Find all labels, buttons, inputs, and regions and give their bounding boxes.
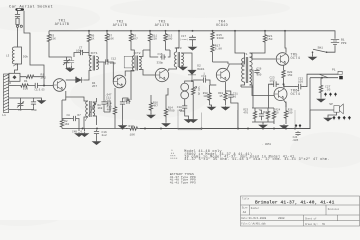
svg-text:V16 2K: V16 2K bbox=[197, 87, 200, 96]
wire IFT3 sec to D1 bbox=[181, 53, 192, 70]
svg-text:330p: 330p bbox=[157, 62, 164, 65]
ground speaker bbox=[324, 117, 332, 122]
svg-text:C4B: C4B bbox=[72, 130, 77, 133]
resistor R15 bbox=[211, 31, 214, 41]
footnote marks tone bbox=[324, 93, 326, 97]
wire C18 to ground bbox=[185, 110, 189, 119]
wire down to combo bbox=[252, 87, 254, 108]
svg-text:OC81D: OC81D bbox=[216, 24, 228, 28]
wire R7 down bbox=[106, 44, 108, 62]
wire output node to C22 bbox=[284, 86, 297, 88]
svg-text:Sheet of: Sheet of bbox=[305, 218, 317, 221]
ground aerial tuned circuit bbox=[37, 99, 45, 104]
wire C11 link bbox=[104, 106, 110, 112]
svg-text:150: 150 bbox=[267, 38, 273, 41]
svg-text:4K7: 4K7 bbox=[133, 38, 138, 41]
wire to gnd bbox=[210, 105, 212, 107]
svg-text:4K7: 4K7 bbox=[107, 109, 112, 112]
wire to L3 bbox=[17, 27, 19, 45]
wire C16 down bbox=[96, 135, 98, 140]
svg-text:R1B: R1B bbox=[129, 125, 135, 128]
wire rail to T1 bbox=[235, 31, 245, 58]
wire C2 top bbox=[21, 98, 34, 101]
ground R12 bbox=[147, 114, 155, 119]
ground combo bbox=[259, 124, 267, 129]
capacitor C26 bbox=[254, 69, 259, 74]
junction on bottom rail bbox=[96, 128, 98, 130]
wire trimmer to rod bbox=[8, 76, 9, 78]
wire C4 top bbox=[33, 98, 35, 100]
svg-text:Brimaler 41-37, 41-40, 41-41: Brimaler 41-37, 41-40, 41-41 bbox=[255, 200, 335, 206]
battery B1 bbox=[331, 38, 339, 46]
wire TR6 collector to node bbox=[283, 85, 286, 88]
resistor R2 body bbox=[20, 75, 40, 78]
capacitor C5 coupling bbox=[33, 83, 40, 88]
svg-text:(4700): (4700) bbox=[180, 38, 188, 41]
wire top supply rail bbox=[49, 31, 335, 38]
svg-text:C5,0.05: C5,0.05 bbox=[35, 88, 46, 91]
detector coil L5 bbox=[181, 83, 189, 91]
transformer T1 bbox=[242, 58, 245, 82]
wire T1 centre tap bbox=[250, 70, 254, 76]
detector section box bbox=[178, 110, 202, 130]
junction on bottom rail bbox=[237, 128, 239, 130]
capacitor C3 bbox=[69, 57, 74, 66]
svg-text:C26: C26 bbox=[257, 68, 262, 71]
svg-text:41-37 5"x3" 35 ohm. 41-48 4" d: 41-37 5"x3" 35 ohm. 41-48 4" dia. 37 ohm… bbox=[184, 157, 329, 162]
resistor R7 bias bbox=[105, 31, 108, 44]
svg-text:3300: 3300 bbox=[217, 37, 224, 40]
svg-text:100: 100 bbox=[288, 112, 293, 115]
wire down to base row bbox=[43, 77, 45, 86]
coil former bbox=[16, 18, 19, 24]
title block frame bbox=[241, 196, 360, 226]
transistor TR3 bbox=[155, 68, 168, 81]
wire AGC down bbox=[103, 70, 105, 100]
svg-text:OC74: OC74 bbox=[291, 57, 301, 61]
wire TR2 emitter down bbox=[114, 88, 116, 95]
svg-text:31-Oct-2008: 31-Oct-2008 bbox=[249, 217, 267, 220]
wire C7 left bbox=[74, 53, 78, 58]
wire jack sleeve line bbox=[310, 77, 338, 79]
ground R26 bbox=[280, 124, 288, 129]
junction on supply rail bbox=[284, 30, 286, 32]
svg-text:.005: .005 bbox=[292, 139, 299, 142]
wire rod tap to R1 bbox=[9, 85, 16, 87]
wire D1 to IFT1 bbox=[84, 74, 89, 80]
wire coil bottom down bbox=[184, 99, 186, 105]
wire TR1 collector to D1 bbox=[66, 79, 77, 81]
transistor TR5 bbox=[276, 53, 289, 66]
capacitor C8 bbox=[71, 116, 78, 121]
network bracket bbox=[252, 108, 274, 122]
svg-text:2008: 2008 bbox=[278, 217, 285, 220]
footnote marks speaker bbox=[333, 116, 336, 120]
wire R19 bottom bbox=[225, 102, 227, 105]
trimmer capacitor box bbox=[9, 73, 20, 81]
wire R20 to output node bbox=[283, 80, 285, 87]
resistor R9 bbox=[129, 31, 132, 44]
svg-text:C19: C19 bbox=[201, 75, 206, 78]
junction on supply rail bbox=[149, 30, 151, 32]
resistor R13 bbox=[164, 31, 167, 44]
resistor R21 bbox=[263, 31, 266, 46]
wire T1 primary top bbox=[242, 58, 245, 64]
junction on supply rail bbox=[88, 30, 90, 32]
wire VR1 bottom bbox=[192, 99, 194, 105]
wire IFT3 primary to rail bbox=[177, 31, 180, 52]
ground C13 bbox=[118, 124, 126, 129]
junction output node bbox=[283, 83, 285, 85]
wire TR3 emitter to R14 bbox=[166, 88, 168, 105]
wire R2 to base node bbox=[40, 76, 44, 78]
resistor 50k damping bbox=[18, 47, 22, 64]
terminal circles bbox=[16, 25, 18, 27]
junction on supply rail bbox=[165, 30, 167, 32]
junction on bottom rail bbox=[273, 128, 275, 130]
svg-text:10K: 10K bbox=[109, 38, 114, 41]
ground C17 bbox=[188, 46, 196, 51]
junction on supply rail bbox=[178, 30, 180, 32]
transformer IFT2 bbox=[132, 56, 134, 71]
IFT2 shield box bbox=[124, 56, 134, 68]
wire osc primary bottom bbox=[84, 117, 88, 129]
junction on bottom rail bbox=[160, 128, 162, 130]
resistor R10 bbox=[113, 103, 116, 118]
wire R9 to IFT2 bbox=[131, 44, 134, 56]
svg-text:1K8: 1K8 bbox=[98, 107, 103, 110]
svg-text:6.8K: 6.8K bbox=[215, 48, 222, 51]
capacitor C22 output bbox=[295, 84, 303, 90]
wire switch to ground bbox=[312, 52, 314, 56]
transformer IFT3 bbox=[174, 52, 176, 67]
svg-text:L3: L3 bbox=[6, 55, 10, 58]
ground osc bbox=[80, 132, 88, 137]
wire TR6 emitter to R26 bbox=[284, 100, 286, 107]
svg-text:SW1: SW1 bbox=[318, 47, 324, 50]
wire rod tap tuning bbox=[9, 97, 21, 99]
svg-text:C40: C40 bbox=[32, 109, 37, 112]
svg-text:100: 100 bbox=[270, 79, 275, 82]
wire C15 right bbox=[168, 50, 170, 57]
svg-text:L1: L1 bbox=[2, 113, 6, 117]
svg-text:10: 10 bbox=[276, 112, 280, 115]
wire AGC node bbox=[103, 62, 105, 70]
wire TR4 emitter to R19 bbox=[225, 82, 227, 91]
junction on bottom rail bbox=[144, 128, 146, 130]
wire R21 to base line bbox=[252, 46, 265, 53]
wire C13 node bbox=[123, 98, 129, 101]
wire C19 to TR4 base bbox=[207, 80, 210, 85]
transistor TR6 bbox=[274, 88, 287, 101]
wire C2 bottom bbox=[20, 109, 22, 110]
diode D1 oscillator bbox=[76, 77, 84, 83]
wire socket left lead bbox=[17, 11, 19, 14]
switch lever jack bbox=[320, 74, 329, 77]
coil L3 bbox=[12, 47, 14, 64]
capacitor C7 bbox=[78, 50, 85, 55]
resistor R1 bbox=[16, 84, 33, 87]
resistor R6 bias bbox=[87, 31, 90, 45]
capacitor C15 bbox=[160, 54, 166, 59]
svg-text:470: 470 bbox=[243, 112, 248, 115]
svg-text:P1: P1 bbox=[332, 68, 336, 71]
svg-text:IFT1: IFT1 bbox=[90, 52, 97, 55]
capacitor C13 bbox=[120, 100, 125, 106]
wire bottom rail right segment bbox=[140, 110, 310, 129]
wire bottom rail left segment bbox=[62, 128, 128, 130]
svg-text:2u2: 2u2 bbox=[102, 134, 107, 137]
svg-text:T2: T2 bbox=[90, 106, 94, 109]
svg-text:0.1: 0.1 bbox=[81, 130, 86, 133]
resistor R19 bbox=[224, 91, 227, 102]
ground VR1 bbox=[189, 118, 197, 123]
svg-text:100: 100 bbox=[298, 80, 303, 83]
wire osc feedback top bbox=[66, 97, 88, 101]
svg-text:AF117B: AF117B bbox=[113, 24, 127, 28]
svg-text:A4: A4 bbox=[243, 211, 247, 214]
resistor R11 bbox=[148, 31, 151, 44]
svg-text:100: 100 bbox=[203, 95, 208, 98]
wire R26 top bbox=[285, 102, 287, 108]
wire rod tap lower bbox=[9, 109, 16, 111]
svg-text:Revision: Revision bbox=[328, 208, 340, 211]
svg-text:OA90: OA90 bbox=[74, 77, 77, 83]
wire R12 bottom bbox=[150, 113, 152, 114]
wire R11 down bbox=[143, 44, 150, 50]
ground C8 bbox=[75, 132, 83, 137]
wire T1 sec to TR6 base bbox=[250, 85, 275, 96]
wire C7 right bbox=[85, 52, 89, 54]
capacitor C18 bbox=[182, 104, 187, 110]
wire IFT2 sec top bbox=[139, 50, 143, 57]
diode D1 bbox=[188, 70, 196, 79]
capacitor C12 bbox=[104, 59, 109, 64]
wire socket to coupling bbox=[24, 27, 44, 77]
capacitor C11 bbox=[107, 101, 112, 106]
wire R15 to R17 bbox=[212, 41, 214, 43]
wire to trimmer bbox=[15, 66, 18, 73]
wire C12 to TR2 base bbox=[110, 62, 114, 82]
resistor R18 bbox=[208, 91, 211, 102]
ground C16 bbox=[92, 140, 100, 145]
junction on supply rail bbox=[212, 30, 214, 32]
svg-text:AF117B: AF117B bbox=[155, 24, 169, 28]
resistor R20 bbox=[282, 68, 285, 80]
svg-text:4K7: 4K7 bbox=[153, 105, 158, 108]
transistor TR4 bbox=[216, 68, 229, 81]
wire battery to switch bbox=[327, 46, 335, 52]
wire emitter node bbox=[61, 100, 63, 118]
wire T1 primary bottom bbox=[241, 82, 245, 87]
svg-text:Date:: Date: bbox=[241, 217, 248, 220]
wire speaker to ground bbox=[328, 112, 337, 117]
svg-text:OA91: OA91 bbox=[197, 68, 204, 71]
wire R6 down bbox=[88, 45, 90, 52]
wire R27 top bbox=[320, 78, 322, 84]
wire osc bottom bbox=[84, 129, 86, 132]
wire to T1 via bbox=[213, 62, 229, 64]
wire socket right lead bbox=[23, 11, 25, 27]
svg-text:4700: 4700 bbox=[168, 110, 175, 113]
svg-text:C11: C11 bbox=[106, 97, 111, 100]
wire R6 to IFT1 primary bbox=[89, 52, 92, 56]
svg-text:150: 150 bbox=[287, 74, 292, 77]
wire C13 down bbox=[122, 106, 124, 125]
capacitor C1 aerial series bbox=[15, 13, 20, 18]
variable capacitor C6 gang bbox=[63, 57, 70, 66]
svg-text:.05: .05 bbox=[325, 89, 331, 92]
svg-text:15: 15 bbox=[219, 95, 223, 98]
resistor R2 bias bbox=[47, 31, 50, 45]
wire gang top bbox=[64, 56, 72, 58]
resistor R12 bbox=[149, 100, 152, 113]
junction on bottom rail bbox=[294, 128, 296, 130]
svg-text:1K2: 1K2 bbox=[64, 123, 69, 126]
car aerial socket connector bbox=[15, 8, 24, 11]
svg-text:180: 180 bbox=[167, 38, 172, 41]
polarity mark C22 bbox=[297, 90, 299, 92]
ground tuning gang bbox=[66, 67, 74, 72]
svg-text:50k: 50k bbox=[23, 55, 29, 59]
resistor R26 bbox=[284, 107, 287, 122]
transistor TR2 bbox=[113, 75, 126, 88]
variable capacitor C2 bbox=[17, 101, 24, 109]
junction on supply rail bbox=[192, 30, 194, 32]
wire R26 bottom bbox=[285, 122, 287, 124]
svg-text:SP: SP bbox=[329, 103, 333, 106]
wire C3 bottom bbox=[71, 66, 73, 68]
svg-text:R1: R1 bbox=[24, 80, 28, 83]
wire bias node bbox=[49, 52, 64, 57]
resistor R17 bbox=[211, 43, 214, 55]
ground IFT3 secondary bbox=[179, 66, 187, 71]
wire R12 top bbox=[150, 95, 152, 100]
svg-text:100: 100 bbox=[23, 88, 29, 91]
transformer IFT1 bbox=[89, 56, 91, 71]
wire D1 to VR1 bbox=[192, 81, 193, 84]
svg-text:R7: R7 bbox=[78, 114, 82, 117]
ground R18 bbox=[207, 106, 215, 111]
wire C17 down bbox=[192, 42, 194, 46]
wire C8 left bbox=[62, 118, 71, 120]
svg-text:1K: 1K bbox=[91, 38, 95, 41]
resistor R5 emitter bbox=[60, 118, 63, 129]
svg-text:PP9: PP9 bbox=[341, 42, 347, 45]
wire to speaker bbox=[310, 109, 334, 111]
wire D1 to coil bbox=[185, 80, 192, 84]
svg-text:C8: C8 bbox=[67, 114, 71, 117]
switch lever bbox=[313, 49, 327, 52]
svg-text:. 0051: . 0051 bbox=[262, 143, 272, 146]
wire R24 down bbox=[273, 122, 275, 124]
junction base node bbox=[43, 85, 45, 87]
svg-text:390: 390 bbox=[257, 74, 262, 77]
svg-text:10K: 10K bbox=[130, 134, 136, 137]
L3 adjustment arrow bbox=[13, 64, 18, 67]
wire base node bbox=[210, 84, 216, 86]
wire C8 right down bbox=[78, 119, 79, 132]
resistor R28 in bottom rail bbox=[126, 127, 142, 130]
ground R27 bbox=[317, 98, 325, 103]
transistor TR1 bbox=[53, 79, 66, 92]
ground R19 bbox=[221, 106, 229, 111]
capacitor C10 AGC bbox=[101, 100, 106, 106]
svg-text:OC74: OC74 bbox=[291, 93, 301, 97]
ground detector left bbox=[184, 118, 192, 123]
wire R10 top bbox=[114, 95, 116, 103]
wire C21 to rail bbox=[231, 99, 238, 129]
junction on supply rail bbox=[106, 30, 108, 32]
junction jack switch bbox=[321, 77, 323, 79]
wire R18 bottom bbox=[209, 102, 211, 105]
wire osc sec bottom bbox=[93, 116, 97, 125]
wire C22 to jack tip bbox=[303, 74, 338, 86]
svg-text:.047: .047 bbox=[105, 94, 112, 97]
junction on bottom rail bbox=[82, 128, 84, 130]
wire R27 bottom bbox=[320, 94, 322, 98]
capacitor C28 bbox=[259, 110, 264, 121]
footnote marks on R802 bbox=[295, 124, 297, 128]
resistor C27 tone bbox=[319, 84, 322, 94]
wire TR4 collector to T1 bbox=[227, 64, 242, 70]
svg-text:Number: Number bbox=[251, 207, 260, 210]
wire jack to speaker line bbox=[309, 78, 311, 110]
wire T1 sec to TR5 base bbox=[250, 53, 276, 59]
wire IFT2 primary down bbox=[131, 71, 134, 101]
wire R14 bottom bbox=[165, 120, 167, 122]
capacitor C17 decoupling bbox=[189, 35, 196, 42]
capacitor C9 bbox=[126, 99, 131, 104]
svg-text:C12: C12 bbox=[111, 58, 116, 61]
svg-text:15K: 15K bbox=[51, 38, 56, 41]
capacitor C16 padder bbox=[94, 130, 99, 135]
wire C15 left bbox=[150, 50, 158, 57]
resistor R23 bbox=[253, 108, 256, 122]
junction on supply rail bbox=[264, 30, 266, 32]
junction on bottom rail bbox=[285, 128, 287, 130]
junction on bottom rail bbox=[201, 128, 203, 130]
wire C23 down to network bbox=[269, 84, 272, 108]
junction on supply rail bbox=[130, 30, 132, 32]
junction on bottom rail bbox=[262, 128, 264, 130]
svg-text:40: 40 bbox=[233, 95, 237, 98]
svg-text:AF117B: AF117B bbox=[55, 23, 69, 27]
wire IFT3 sec to ground bbox=[181, 65, 183, 67]
wire to ground bbox=[34, 98, 42, 101]
svg-text:R802: R802 bbox=[263, 111, 269, 114]
wire combo to ground bbox=[262, 122, 264, 124]
junction detector output bbox=[191, 80, 193, 82]
wire C13 top bbox=[122, 98, 124, 100]
resistor VR1 track bbox=[192, 84, 195, 99]
svg-text:2K7: 2K7 bbox=[92, 85, 97, 88]
svg-text:File:: File: bbox=[241, 223, 248, 226]
svg-text:C:\A(4B).ddb: C:\A(4B).ddb bbox=[249, 223, 267, 226]
oscillator transformer L4 bbox=[86, 101, 88, 117]
wire VR1 wiper to C19 bbox=[193, 79, 202, 81]
wire R17 down bbox=[212, 54, 214, 62]
wire to TR1 base bbox=[40, 85, 54, 87]
wire rod tap upper bbox=[9, 82, 11, 84]
capacitor C19 bbox=[202, 77, 207, 82]
wire VR1 to ground bbox=[192, 105, 194, 119]
junction on bottom rail bbox=[122, 128, 124, 130]
resistor R802 bbox=[266, 108, 269, 122]
wire L3 bottom bbox=[15, 64, 18, 66]
junction on supply rail bbox=[234, 30, 236, 32]
wire IFT2 sec to TR3 base bbox=[139, 70, 155, 76]
